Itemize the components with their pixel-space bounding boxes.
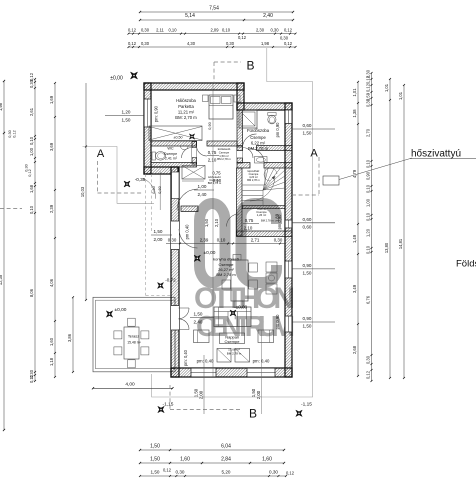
- svg-text:0,90: 0,90: [208, 122, 212, 129]
- svg-text:pm: 0,40: pm: 0,40: [183, 349, 188, 366]
- svg-text:2,11: 2,11: [156, 28, 164, 33]
- svg-text:0,10: 0,10: [366, 245, 371, 254]
- svg-text:6,76: 6,76: [366, 295, 371, 304]
- svg-text:2,10: 2,10: [208, 158, 217, 163]
- svg-text:Földszint: Földszint: [456, 259, 476, 270]
- svg-text:BM 2,78 m: BM 2,78 m: [261, 219, 274, 223]
- svg-text:0,60: 0,60: [303, 224, 312, 229]
- svg-text:hőszivattyú: hőszivattyú: [411, 149, 461, 160]
- svg-text:0,30: 0,30: [8, 130, 12, 137]
- svg-text:pm: 0,90: pm: 0,90: [154, 105, 159, 122]
- svg-text:2,41 m²: 2,41 m²: [165, 157, 178, 161]
- svg-text:3,49: 3,49: [352, 284, 357, 293]
- svg-text:1,50: 1,50: [122, 117, 131, 122]
- svg-text:CENTRUM: CENTRUM: [196, 311, 295, 343]
- svg-text:-1,15: -1,15: [163, 402, 174, 408]
- svg-text:0,10: 0,10: [366, 159, 371, 168]
- svg-text:-1,15: -1,15: [301, 402, 312, 408]
- svg-text:0,12: 0,12: [366, 370, 371, 379]
- svg-text:Csempe: Csempe: [225, 339, 241, 344]
- svg-text:0,10: 0,10: [366, 212, 371, 221]
- svg-text:13,80: 13,80: [384, 242, 389, 253]
- svg-text:14,81: 14,81: [398, 238, 403, 249]
- svg-text:0,30: 0,30: [141, 41, 150, 46]
- svg-text:1,50: 1,50: [303, 324, 312, 329]
- svg-text:0,12: 0,12: [286, 471, 295, 476]
- svg-text:11,21 m²: 11,21 m²: [178, 110, 195, 115]
- svg-text:1,50: 1,50: [204, 218, 209, 227]
- svg-text:1,60: 1,60: [49, 337, 54, 346]
- svg-text:2,00: 2,00: [256, 390, 261, 399]
- svg-text:±0,00: ±0,00: [204, 250, 216, 256]
- svg-text:3,86: 3,86: [67, 333, 72, 342]
- svg-text:1,60: 1,60: [262, 457, 272, 463]
- svg-text:1,69: 1,69: [49, 95, 54, 104]
- svg-text:0,75: 0,75: [208, 150, 217, 155]
- svg-text:0,30: 0,30: [168, 238, 177, 243]
- svg-text:BM 2,78 m: BM 2,78 m: [227, 352, 242, 356]
- svg-text:0,12: 0,12: [13, 130, 17, 137]
- svg-text:2,30: 2,30: [256, 28, 265, 33]
- svg-text:B: B: [249, 407, 257, 421]
- svg-text:1,89: 1,89: [275, 213, 280, 222]
- svg-text:A: A: [310, 148, 318, 160]
- svg-text:0,10: 0,10: [29, 136, 34, 145]
- svg-text:2,40: 2,40: [198, 192, 207, 197]
- svg-text:2,84: 2,84: [221, 457, 231, 463]
- svg-text:0,30: 0,30: [280, 35, 289, 40]
- svg-text:2,10: 2,10: [214, 218, 219, 227]
- svg-text:0,75: 0,75: [245, 218, 254, 223]
- svg-text:0,30: 0,30: [274, 238, 283, 243]
- svg-text:1,26 m²: 1,26 m²: [257, 213, 267, 217]
- svg-text:1,98: 1,98: [261, 41, 270, 46]
- svg-text:±0,00: ±0,00: [115, 307, 127, 313]
- svg-text:8,06: 8,06: [29, 288, 34, 297]
- svg-text:A: A: [97, 148, 105, 160]
- svg-text:15,48 m²: 15,48 m²: [127, 341, 141, 345]
- svg-text:2,00: 2,00: [199, 390, 204, 399]
- svg-text:0,60: 0,60: [303, 217, 312, 222]
- svg-text:-0,72: -0,72: [165, 278, 176, 283]
- svg-text:10,03: 10,03: [80, 186, 85, 197]
- svg-text:0,10: 0,10: [217, 238, 226, 243]
- svg-text:±0,00: ±0,00: [110, 76, 123, 82]
- svg-text:Fürdőszoba: Fürdőszoba: [247, 128, 270, 133]
- svg-text:1,68: 1,68: [29, 184, 34, 193]
- svg-text:1,38: 1,38: [352, 109, 357, 118]
- svg-text:1,20: 1,20: [122, 110, 131, 115]
- svg-text:-0,38: -0,38: [135, 177, 146, 182]
- svg-text:0,60: 0,60: [158, 186, 162, 193]
- svg-text:2,70: 2,70: [366, 128, 371, 137]
- svg-text:0,12: 0,12: [284, 41, 293, 46]
- svg-text:Csempe: Csempe: [164, 152, 177, 156]
- svg-text:1,50: 1,50: [194, 312, 203, 317]
- svg-text:12,35: 12,35: [0, 274, 3, 285]
- svg-text:4,30: 4,30: [187, 41, 196, 46]
- svg-text:1,01: 1,01: [398, 91, 403, 100]
- svg-text:0,12: 0,12: [29, 374, 34, 383]
- svg-text:±0,00: ±0,00: [236, 305, 248, 310]
- svg-text:pm 0,90: pm 0,90: [275, 122, 280, 138]
- svg-text:1,00: 1,00: [29, 147, 34, 156]
- svg-text:1,50: 1,50: [150, 444, 160, 450]
- svg-text:2,61: 2,61: [29, 107, 34, 116]
- svg-text:0,10: 0,10: [366, 184, 371, 193]
- svg-text:6,04: 6,04: [221, 444, 231, 450]
- svg-text:2,10: 2,10: [244, 226, 253, 231]
- svg-text:1,60: 1,60: [180, 457, 190, 463]
- svg-text:2,09: 2,09: [211, 28, 220, 33]
- svg-text:1,01: 1,01: [384, 83, 389, 92]
- svg-text:B: B: [246, 59, 254, 73]
- svg-text:BM: 2,70 m: BM: 2,70 m: [175, 115, 197, 120]
- svg-text:0,90: 0,90: [366, 171, 371, 180]
- svg-text:BM 2,78 m: BM 2,78 m: [216, 272, 236, 277]
- svg-text:4,06: 4,06: [49, 278, 54, 287]
- svg-text:0,90: 0,90: [303, 263, 312, 268]
- svg-text:1,00: 1,00: [198, 184, 207, 189]
- svg-text:0,12: 0,12: [28, 169, 32, 176]
- svg-text:0,30: 0,30: [271, 28, 280, 33]
- svg-text:5,14: 5,14: [185, 13, 195, 19]
- svg-text:BM 2,78 m: BM 2,78 m: [208, 181, 222, 185]
- svg-text:0,30: 0,30: [29, 79, 34, 88]
- svg-text:0,12: 0,12: [238, 35, 247, 40]
- svg-text:1,01: 1,01: [352, 88, 357, 97]
- svg-text:pm: 0,40: pm: 0,40: [197, 359, 214, 364]
- svg-text:4,00: 4,00: [125, 382, 135, 388]
- svg-text:WC: WC: [167, 147, 174, 151]
- svg-text:0,10: 0,10: [222, 28, 231, 33]
- svg-text:0,60: 0,60: [152, 186, 156, 193]
- svg-text:0,30: 0,30: [366, 98, 371, 107]
- svg-text:0,12: 0,12: [366, 75, 371, 84]
- svg-text:2,71: 2,71: [251, 238, 260, 243]
- svg-text:4,79: 4,79: [352, 169, 357, 178]
- svg-text:0,30: 0,30: [141, 28, 150, 33]
- svg-text:7,54: 7,54: [209, 6, 219, 12]
- svg-text:2,00: 2,00: [154, 237, 163, 242]
- svg-text:3,69: 3,69: [49, 142, 54, 151]
- svg-text:BM 2,78 m: BM 2,78 m: [217, 157, 231, 161]
- svg-text:pm 0,90: pm 0,90: [275, 314, 280, 330]
- svg-text:0,12: 0,12: [128, 41, 137, 46]
- svg-text:0,10: 0,10: [169, 28, 178, 33]
- svg-text:Parketta: Parketta: [178, 104, 194, 109]
- svg-text:0,60: 0,60: [303, 123, 312, 128]
- svg-text:0,90: 0,90: [303, 316, 312, 321]
- svg-text:2,40: 2,40: [194, 320, 203, 325]
- svg-text:0,12: 0,12: [163, 468, 172, 473]
- svg-text:0,30: 0,30: [176, 470, 185, 475]
- svg-text:5,20: 5,20: [222, 470, 231, 475]
- svg-text:pm: 0,40: pm: 0,40: [253, 359, 270, 364]
- svg-text:1,00: 1,00: [366, 198, 371, 207]
- svg-text:BM 2,78 m: BM 2,78 m: [247, 178, 260, 182]
- svg-text:pm 0,40: pm 0,40: [185, 224, 190, 240]
- svg-text:0,12: 0,12: [366, 83, 371, 92]
- svg-text:0,10: 0,10: [29, 205, 34, 214]
- svg-text:Hálószoba: Hálószoba: [176, 98, 196, 103]
- svg-text:0,30: 0,30: [226, 41, 235, 46]
- svg-text:0,12: 0,12: [128, 28, 137, 33]
- svg-text:1,98: 1,98: [0, 102, 3, 111]
- svg-text:1,50: 1,50: [154, 229, 163, 234]
- svg-text:1,50: 1,50: [151, 470, 160, 475]
- svg-text:0,12: 0,12: [29, 72, 34, 81]
- svg-text:Csempe: Csempe: [250, 135, 266, 140]
- svg-text:1,50: 1,50: [303, 131, 312, 136]
- svg-text:2,68: 2,68: [352, 345, 357, 354]
- svg-text:2,39: 2,39: [49, 204, 54, 213]
- svg-text:1,20: 1,20: [366, 228, 371, 237]
- svg-text:1,50: 1,50: [150, 457, 160, 463]
- svg-text:±0,50: ±0,50: [174, 136, 183, 140]
- svg-text:1,18: 1,18: [49, 357, 54, 366]
- svg-text:0,30: 0,30: [366, 355, 371, 364]
- svg-text:1,50: 1,50: [303, 271, 312, 276]
- svg-text:1,49: 1,49: [352, 234, 357, 243]
- svg-text:2,40: 2,40: [263, 13, 273, 19]
- svg-text:BM 2,70 m: BM 2,70 m: [248, 146, 269, 151]
- svg-text:0,30: 0,30: [269, 470, 278, 475]
- svg-text:0,12: 0,12: [284, 28, 293, 33]
- svg-text:2,39: 2,39: [200, 238, 209, 243]
- svg-text:Terasz: Terasz: [128, 335, 139, 339]
